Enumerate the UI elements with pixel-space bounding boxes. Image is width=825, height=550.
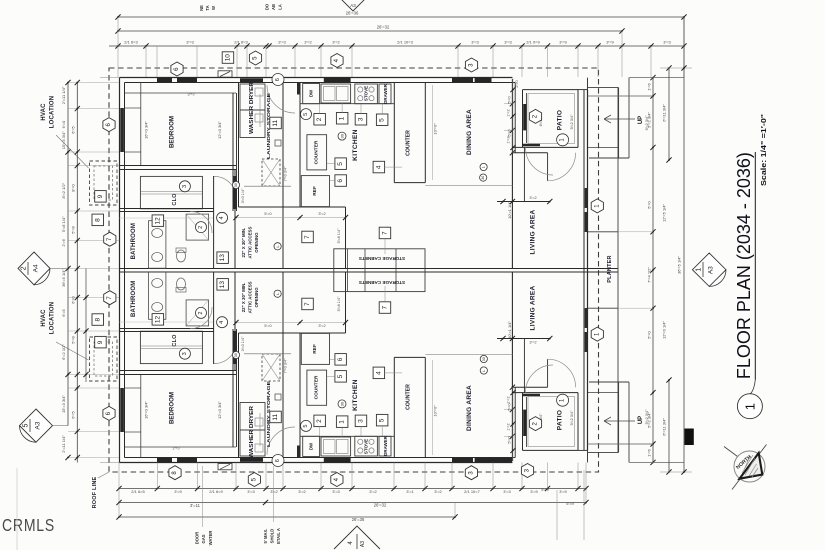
upper unit bathroom shower stall bbox=[186, 214, 209, 240]
svg-text:CRMLS: CRMLS bbox=[2, 515, 55, 535]
upper unit patio walls bbox=[522, 90, 524, 148]
keynote hexagon 7 left upper bbox=[104, 232, 116, 246]
svg-text:CLO: CLO bbox=[172, 334, 178, 347]
keynote hexagon 4 top bbox=[331, 54, 343, 68]
upper unit kitchen sink bbox=[321, 84, 351, 103]
svg-text:DOOR: DOOR bbox=[195, 532, 200, 545]
black bar marker bbox=[685, 429, 694, 446]
svg-text:3'=3: 3'=3 bbox=[278, 40, 286, 45]
keynote door flag top bbox=[218, 71, 232, 77]
svg-text:16′=0 3/4": 16′=0 3/4" bbox=[143, 120, 148, 138]
keynote square 8 left lower bbox=[92, 314, 104, 326]
svg-text:2: 2 bbox=[198, 226, 204, 229]
svg-text:12′=5 1/4": 12′=5 1/4" bbox=[662, 203, 667, 221]
patio hexagon 2 upper bbox=[529, 109, 541, 123]
lower unit closet CLO walls bbox=[140, 331, 202, 363]
svg-text:5: 5 bbox=[303, 425, 309, 428]
lower unit patio inner line bbox=[528, 397, 575, 447]
north arrow symbol bbox=[724, 445, 767, 490]
upper unit bedroom pocket door dark band bbox=[233, 176, 237, 209]
keynote square 13 upper bbox=[217, 252, 229, 264]
svg-text:6′=11 3/4": 6′=11 3/4" bbox=[662, 418, 667, 436]
svg-text:2′=11 1/4": 2′=11 1/4" bbox=[61, 86, 66, 104]
upper unit closet CLO walls bbox=[140, 176, 202, 208]
svg-text:OPENING: OPENING bbox=[254, 232, 259, 253]
left dimension line C bbox=[85, 269, 87, 383]
upper unit bedroom right wall bbox=[232, 93, 234, 211]
lower unit bathroom top wall bbox=[120, 331, 214, 333]
upper unit kitchen stove bbox=[355, 84, 378, 104]
svg-text:30: 30 bbox=[482, 357, 486, 361]
svg-text:3'=3: 3'=3 bbox=[332, 489, 340, 494]
upper unit kitchen back wall bbox=[299, 83, 301, 208]
svg-text:8'=0: 8'=0 bbox=[71, 183, 76, 191]
upper unit small keynote chip bbox=[275, 140, 281, 146]
circle note 2 lower bbox=[196, 307, 207, 318]
exterior wall top bbox=[120, 77, 513, 79]
upper unit kitchen drawer bank bbox=[379, 84, 391, 104]
svg-text:KITCHEN: KITCHEN bbox=[352, 379, 359, 411]
upper unit bedroom inner wall lines bbox=[125, 92, 237, 94]
lower unit exterior stair outline bbox=[588, 451, 619, 453]
keynote hexagon 3 bottom patio bbox=[521, 464, 533, 478]
svg-text:2/1 6=3: 2/1 6=3 bbox=[234, 40, 248, 45]
svg-text:36′=5 1/4": 36′=5 1/4" bbox=[61, 268, 66, 286]
upper unit living entry wall bbox=[523, 147, 525, 201]
svg-text:2: 2 bbox=[198, 312, 204, 315]
circle note 3 closet lower bbox=[179, 348, 190, 359]
lower unit bathroom vanity with two sinks bbox=[149, 272, 166, 320]
svg-text:5'=8: 5'=8 bbox=[71, 225, 76, 233]
svg-text:11: 11 bbox=[272, 413, 279, 420]
svg-text:22" X 30" MIN.: 22" X 30" MIN. bbox=[241, 283, 246, 313]
window left wall upper unit bbox=[120, 108, 124, 152]
svg-text:5' MAX.: 5' MAX. bbox=[263, 529, 268, 544]
svg-text:A3: A3 bbox=[35, 421, 42, 429]
svg-text:4: 4 bbox=[375, 371, 382, 375]
planter top edge bbox=[588, 231, 619, 233]
left dimension line B bbox=[76, 83, 78, 463]
right corner extension top bbox=[660, 67, 692, 69]
bath hall dim ticks upper bbox=[119, 217, 213, 219]
svg-text:3'=3: 3'=3 bbox=[504, 40, 512, 45]
svg-text:SHOLD: SHOLD bbox=[270, 529, 275, 544]
upper unit bathroom vanity with two sinks bbox=[149, 221, 166, 269]
svg-text:5'=0: 5'=0 bbox=[508, 129, 512, 136]
bottom dimension row 3 bbox=[119, 516, 455, 518]
svg-text:4: 4 bbox=[375, 165, 382, 169]
svg-text:3: 3 bbox=[182, 185, 188, 188]
svg-text:DRAWER: DRAWER bbox=[383, 83, 388, 103]
svg-text:1'=6: 1'=6 bbox=[647, 448, 652, 456]
upper unit stair direction arrow bbox=[604, 118, 635, 120]
lower unit counter island bbox=[393, 357, 395, 457]
svg-text:11: 11 bbox=[272, 119, 279, 126]
svg-text:7: 7 bbox=[382, 306, 389, 310]
upper unit laundry door arc bbox=[267, 85, 295, 113]
svg-text:DW: DW bbox=[309, 89, 314, 97]
svg-text:BEDROOM: BEDROOM bbox=[169, 116, 176, 148]
kitchen keynote squares upper bbox=[314, 114, 326, 126]
svg-text:WASHER DRYER: WASHER DRYER bbox=[249, 82, 255, 134]
lower unit stair direction arrow bbox=[604, 420, 635, 422]
svg-text:5: 5 bbox=[379, 118, 386, 122]
svg-text:3'=3: 3'=3 bbox=[186, 40, 194, 45]
svg-text:6'=5: 6'=5 bbox=[71, 125, 76, 133]
svg-text:STORAGE CABNETS: STORAGE CABNETS bbox=[359, 280, 405, 285]
svg-text:FLOOR PLAN (2034 - 2036): FLOOR PLAN (2034 - 2036) bbox=[733, 152, 754, 379]
svg-text:7: 7 bbox=[382, 231, 389, 235]
svg-text:COUNTER: COUNTER bbox=[406, 130, 412, 156]
svg-text:3'=9: 3'=9 bbox=[174, 489, 182, 494]
svg-text:5'=0: 5'=0 bbox=[647, 200, 652, 208]
windows in top exterior wall bbox=[157, 78, 172, 82]
lower unit kitchen counter front edge bbox=[300, 435, 394, 437]
svg-text:8′=2 1/2": 8′=2 1/2" bbox=[61, 182, 66, 198]
svg-text:DINING AREA: DINING AREA bbox=[466, 109, 473, 155]
svg-text:ATTIC ACCESS: ATTIC ACCESS bbox=[248, 227, 253, 259]
svg-text:5'=8: 5'=8 bbox=[71, 335, 76, 343]
keynote square 9 left lower bbox=[95, 336, 107, 348]
top margin extension lines bbox=[117, 17, 119, 77]
detail number circle 1 bbox=[737, 394, 762, 419]
upper unit nook wall bbox=[345, 207, 347, 269]
svg-text:5'=0: 5'=0 bbox=[264, 212, 271, 216]
svg-text:TA: TA bbox=[205, 5, 210, 10]
lower unit washer box bbox=[240, 430, 265, 456]
svg-text:6'=0: 6'=0 bbox=[71, 295, 76, 303]
connector title to circle bbox=[750, 380, 755, 395]
keynote hexagon 6 top roofline bbox=[171, 62, 183, 76]
lower unit laundry closet walls bbox=[238, 333, 240, 458]
svg-text:PATIO: PATIO bbox=[557, 110, 564, 130]
HVAC platform dashed box upper bbox=[90, 161, 118, 205]
keynote hexagon 6 left lower bbox=[103, 406, 115, 420]
svg-text:5'=0: 5'=0 bbox=[508, 96, 512, 103]
svg-text:5'=9: 5'=9 bbox=[541, 487, 549, 492]
svg-text:5'=0: 5'=0 bbox=[508, 403, 512, 410]
window right wall lower unit bbox=[585, 308, 588, 328]
exterior wall left bbox=[119, 78, 121, 463]
svg-text:DINING AREA: DINING AREA bbox=[466, 385, 473, 431]
upper unit washer box bbox=[240, 84, 265, 110]
mid dim row left of cabinets upper bbox=[236, 217, 346, 219]
left dimension line A bbox=[67, 83, 69, 426]
svg-text:STOVE: STOVE bbox=[364, 439, 369, 455]
svg-text:3'=3: 3'=3 bbox=[471, 40, 479, 45]
svg-text:3'=9: 3'=9 bbox=[606, 40, 614, 45]
circle note 2 upper bbox=[196, 222, 207, 233]
svg-text:HVAC: HVAC bbox=[41, 103, 47, 121]
upper unit patio door glazing bbox=[523, 104, 526, 130]
top dimension row 2 bbox=[118, 30, 622, 32]
lower unit bedroom right wall bbox=[232, 329, 234, 447]
svg-text:DRAWER: DRAWER bbox=[383, 435, 388, 455]
roof line dashed outline bbox=[109, 68, 599, 472]
svg-text:STOVE: STOVE bbox=[364, 86, 369, 102]
svg-text:7′=0 3/4": 7′=0 3/4" bbox=[284, 166, 288, 181]
corner extension line top left bbox=[100, 77, 120, 79]
patio circle 1 lower bbox=[557, 394, 569, 406]
bottom right extension lines bbox=[556, 490, 558, 540]
circle note 30 kitchen lower bbox=[338, 400, 346, 408]
upper unit bathroom toilet bbox=[177, 250, 186, 262]
lower unit living top wall bbox=[512, 386, 547, 388]
svg-text:2: 2 bbox=[21, 266, 28, 270]
top detail diamond partial bbox=[336, 0, 370, 11]
svg-text:WASHER DRYER: WASHER DRYER bbox=[249, 406, 255, 458]
keynote hexagon 3 top bbox=[465, 58, 477, 72]
svg-text:3'=3: 3'=3 bbox=[247, 489, 255, 494]
kitchen keynote squares side lower bbox=[335, 371, 347, 383]
svg-text:2: 2 bbox=[316, 419, 323, 423]
svg-text:7: 7 bbox=[304, 235, 311, 239]
party wall between units bbox=[120, 268, 619, 270]
svg-text:2/1 10=7: 2/1 10=7 bbox=[464, 489, 480, 494]
svg-text:1: 1 bbox=[742, 403, 757, 410]
leader HVAC lower bbox=[56, 342, 89, 360]
upper unit patio inner line bbox=[528, 94, 575, 144]
windows in bottom exterior wall bbox=[157, 458, 172, 462]
keynote hexagon 5 bottom bbox=[248, 473, 260, 487]
svg-text:WATER: WATER bbox=[208, 531, 213, 546]
svg-text:5: 5 bbox=[303, 113, 309, 116]
sheet ref diamond 1/A3 with arc bbox=[692, 253, 726, 286]
kitchen keynote squares side upper bbox=[335, 158, 347, 170]
svg-text:1'=6: 1'=6 bbox=[647, 82, 652, 90]
svg-text:4: 4 bbox=[219, 216, 225, 219]
mid dim row left of cabinets lower bbox=[236, 322, 346, 324]
circle note 30 bedroom lower bbox=[232, 351, 239, 358]
svg-text:9: 9 bbox=[97, 194, 104, 198]
svg-text:5′=2 3/4": 5′=2 3/4" bbox=[645, 115, 649, 130]
right corner extension bottom bbox=[660, 471, 692, 473]
lower unit patio walls bbox=[522, 393, 524, 451]
upper unit kitchen dishwasher DW bbox=[303, 84, 320, 104]
svg-text:3'=1: 3'=1 bbox=[406, 489, 414, 494]
svg-text:3'=2: 3'=2 bbox=[270, 489, 278, 494]
keynote hexagon 7 left lower bbox=[104, 291, 116, 305]
svg-text:13: 13 bbox=[219, 254, 226, 262]
svg-text:6'=5: 6'=5 bbox=[71, 410, 76, 418]
upper unit living top wall bbox=[512, 152, 547, 154]
svg-text:3'=3: 3'=3 bbox=[663, 40, 671, 45]
svg-text:2'=0: 2'=0 bbox=[515, 80, 519, 87]
circle note 5 kitchen upper bbox=[301, 109, 312, 120]
dining interior dim line lower bbox=[431, 360, 433, 455]
svg-text:6'=5: 6'=5 bbox=[61, 308, 66, 316]
HVAC platform dashed box lower bbox=[90, 337, 118, 381]
svg-text:ATTIC ACCESS: ATTIC ACCESS bbox=[248, 281, 253, 313]
door jamb dark mark lower kitchen bbox=[297, 446, 301, 458]
svg-text:LOCATION: LOCATION bbox=[50, 302, 56, 335]
lower unit patio entry arc bbox=[525, 365, 553, 393]
svg-text:6: 6 bbox=[337, 179, 344, 183]
svg-text:26'=32: 26'=32 bbox=[377, 25, 390, 30]
svg-text:W: W bbox=[211, 6, 216, 10]
bottom dimension row 1 with ticks bbox=[119, 488, 586, 490]
circle note 6 laundry upper bbox=[272, 74, 284, 86]
svg-text:DO: DO bbox=[265, 3, 270, 10]
circle note 4 upper bbox=[217, 212, 228, 223]
circle note pair dining upper bbox=[480, 163, 487, 170]
kitchen keynote squares lower bbox=[314, 415, 326, 427]
circle note 30 bedroom upper bbox=[232, 181, 239, 188]
svg-text:3'=J: 3'=J bbox=[188, 93, 195, 97]
svg-text:5′=2 3/4": 5′=2 3/4" bbox=[570, 410, 574, 425]
upper unit patio entry arc bbox=[525, 147, 553, 175]
circle note 4 lower bbox=[217, 317, 228, 328]
lower unit kitchen dishwasher DW bbox=[303, 436, 320, 456]
svg-text:5′=2 3/4": 5′=2 3/4" bbox=[645, 409, 649, 424]
upper unit dining wall dim rungs bbox=[504, 103, 512, 105]
laundry bypass door dark bar upper bbox=[240, 78, 263, 82]
door jamb dark mark upper kitchen bbox=[297, 83, 301, 95]
bottom note leader DOOR bbox=[202, 466, 204, 527]
svg-text:COUNTER: COUNTER bbox=[313, 140, 319, 164]
svg-text:5: 5 bbox=[23, 424, 30, 428]
svg-text:KITCHEN: KITCHEN bbox=[352, 129, 359, 161]
lower unit kitchen drawer bank bbox=[379, 436, 391, 456]
svg-text:9: 9 bbox=[97, 340, 104, 344]
svg-text:ETAIL A: ETAIL A bbox=[276, 528, 281, 544]
lower unit bathroom shower stall bbox=[186, 300, 209, 326]
svg-text:COUNTER: COUNTER bbox=[406, 384, 412, 410]
lower unit laundry area lower line bbox=[244, 353, 291, 355]
svg-text:3'=2: 3'=2 bbox=[369, 489, 377, 494]
svg-text:2/1 6=3: 2/1 6=3 bbox=[124, 40, 138, 45]
svg-text:1'=2: 1'=2 bbox=[507, 396, 511, 403]
upper unit kitchen counter front edge bbox=[300, 103, 394, 105]
svg-text:3'=2: 3'=2 bbox=[304, 40, 312, 45]
patio dim column upper bbox=[512, 78, 514, 153]
svg-text:2/1 6=5: 2/1 6=5 bbox=[131, 489, 145, 494]
svg-text:A4: A4 bbox=[33, 264, 40, 272]
circle note 5 kitchen lower bbox=[301, 420, 312, 431]
svg-text:26'=36: 26'=36 bbox=[352, 517, 365, 522]
svg-text:3'=3: 3'=3 bbox=[503, 489, 511, 494]
keynote hexagon 4 bottom bbox=[331, 473, 343, 487]
svg-text:LIVING AREA: LIVING AREA bbox=[530, 210, 537, 255]
svg-text:5: 5 bbox=[379, 418, 386, 422]
svg-text:13: 13 bbox=[219, 281, 226, 289]
svg-text:4: 4 bbox=[219, 321, 225, 324]
svg-text:5'=9: 5'=9 bbox=[566, 501, 574, 506]
bottom detail diamond 4/A3 bbox=[334, 526, 380, 549]
svg-text:30: 30 bbox=[234, 183, 238, 187]
svg-text:3: 3 bbox=[182, 352, 188, 355]
svg-text:LA: LA bbox=[278, 4, 283, 10]
svg-text:3'=2: 3'=2 bbox=[529, 340, 536, 344]
bottom dimension row 2 bbox=[119, 502, 586, 504]
dining interior dim line upper bbox=[431, 85, 433, 180]
svg-text:6'=0: 6'=0 bbox=[61, 120, 66, 128]
lower unit kitchen stove bbox=[355, 436, 378, 456]
svg-text:3'=2: 3'=2 bbox=[332, 40, 340, 45]
svg-text:2: 2 bbox=[316, 117, 323, 121]
left ref diamond 5/A3 connector bbox=[53, 425, 69, 427]
lower unit dryer box bbox=[240, 403, 265, 431]
laundry bypass door dark bar lower bbox=[240, 458, 263, 462]
storage cabinets block bbox=[334, 249, 425, 292]
upper unit laundry area lower line bbox=[244, 185, 291, 187]
leader ROOF LINE bbox=[98, 472, 109, 478]
lower unit dining ceiling break line bbox=[425, 354, 512, 356]
lower unit storage cabinet with shelf cross bbox=[262, 354, 280, 381]
keynote square 9 left upper bbox=[95, 191, 107, 203]
bottom margin extension lines bbox=[118, 463, 120, 489]
lower unit nook wall bbox=[345, 272, 347, 334]
svg-text:3'=9: 3'=9 bbox=[530, 489, 538, 494]
lower unit kitchen side counter bbox=[307, 370, 327, 405]
keynote square 11 upper bbox=[270, 117, 282, 129]
circle note pair dining lower bbox=[480, 367, 487, 374]
svg-text:5'=0: 5'=0 bbox=[508, 436, 512, 443]
svg-text:3′=0 1/4": 3′=0 1/4" bbox=[241, 336, 245, 351]
svg-text:8: 8 bbox=[94, 318, 101, 322]
upper unit kitchen side counter bbox=[307, 135, 327, 170]
svg-text:UP: UP bbox=[638, 116, 644, 124]
svg-text:16′=0 3/4": 16′=0 3/4" bbox=[143, 400, 148, 418]
svg-text:STORAGE CABNETS: STORAGE CABNETS bbox=[359, 256, 405, 261]
svg-text:3'=11: 3'=11 bbox=[190, 503, 201, 508]
upper unit hall wall bbox=[213, 176, 215, 269]
upper unit closet door arc bbox=[214, 176, 237, 199]
window right wall upper unit bbox=[585, 188, 588, 208]
right dimension line x669 bbox=[668, 68, 670, 160]
keynote square 13 lower bbox=[217, 279, 229, 291]
svg-text:2/1 10=3: 2/1 10=3 bbox=[397, 40, 413, 45]
svg-text:5′=2 3/4": 5′=2 3/4" bbox=[570, 114, 574, 129]
bottom note leader THRESHOLD bbox=[272, 466, 274, 522]
svg-text:2/1 6=9: 2/1 6=9 bbox=[209, 489, 223, 494]
svg-text:BATHROOM: BATHROOM bbox=[131, 281, 137, 317]
svg-text:LIVING AREA: LIVING AREA bbox=[530, 286, 537, 331]
svg-text:REF: REF bbox=[312, 186, 318, 196]
svg-text:7′=4 1/2": 7′=4 1/2" bbox=[647, 267, 652, 283]
lower unit bathroom door arc bbox=[190, 307, 212, 329]
svg-text:5′=8 1/4": 5′=8 1/4" bbox=[337, 228, 341, 243]
lower unit kitchen back wall bbox=[299, 333, 301, 458]
svg-text:Scale: 1/4" =1′-0": Scale: 1/4" =1′-0" bbox=[759, 113, 768, 186]
upper unit counter island bbox=[393, 83, 395, 183]
svg-text:22" X 30" MIN.: 22" X 30" MIN. bbox=[241, 228, 246, 258]
planter bottom edge bbox=[588, 307, 619, 309]
svg-text:PLANTER: PLANTER bbox=[607, 255, 613, 282]
svg-text:6′=11 3/4": 6′=11 3/4" bbox=[662, 104, 667, 122]
svg-text:5: 5 bbox=[337, 374, 344, 378]
window left wall lower unit bbox=[120, 388, 124, 432]
keynote hexagon 6 left upper bbox=[103, 118, 115, 132]
circle note L hall lower bbox=[274, 290, 281, 297]
upper unit exterior stair outline bbox=[588, 87, 619, 89]
svg-text:12′=0 3/4": 12′=0 3/4" bbox=[217, 120, 222, 138]
planter hexagon 1 upper bbox=[591, 199, 603, 213]
svg-text:PATIO: PATIO bbox=[557, 410, 564, 430]
svg-text:2/1 0=9: 2/1 0=9 bbox=[526, 40, 540, 45]
svg-text:30: 30 bbox=[234, 353, 238, 357]
svg-text:8: 8 bbox=[94, 218, 101, 222]
keynote square 8 left upper bbox=[92, 214, 104, 226]
svg-text:15′=3 3/4": 15′=3 3/4" bbox=[61, 131, 66, 149]
svg-text:OPENING: OPENING bbox=[254, 287, 259, 308]
svg-text:36′=5 1/4": 36′=5 1/4" bbox=[677, 255, 682, 273]
svg-text:1: 1 bbox=[339, 116, 346, 120]
svg-text:COUNTER: COUNTER bbox=[313, 375, 319, 399]
lower unit bedroom inner wall lines bbox=[125, 446, 237, 448]
left ref diamond 2/A4 bbox=[18, 252, 50, 285]
svg-text:BEDROOM: BEDROOM bbox=[169, 392, 176, 424]
